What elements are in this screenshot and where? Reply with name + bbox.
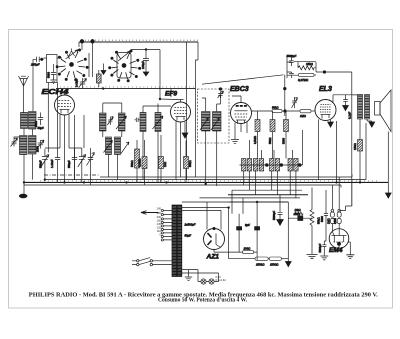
wire transformer top	[352, 94, 367, 96]
HT secondary wires	[182, 202, 288, 255]
svg-text:1500Ω: 1500Ω	[270, 262, 279, 266]
svg-text:8µF: 8µF	[245, 223, 250, 227]
svg-text:220: 220	[157, 211, 162, 215]
capacitor 5000pF to ground in box	[51, 64, 57, 84]
capacitor 10uF with ground	[143, 53, 149, 77]
cap 5000pF to ground arrow	[277, 195, 284, 226]
output transformer secondary	[365, 95, 370, 120]
trimmer cap right of L2a	[38, 113, 43, 126]
wire pin rails	[45, 115, 84, 180]
wire bus links right	[232, 123, 366, 214]
bus 4	[24, 184, 342, 186]
IF1 winding d	[155, 113, 161, 132]
wire tone to EL3	[287, 71, 352, 73]
wire gang drops	[45, 169, 91, 186]
IF2 shield dashed box	[198, 89, 230, 143]
mains arrow	[141, 211, 159, 215]
trimmer 2-18pF below sockets	[79, 78, 87, 89]
resistor 0,27M pill	[287, 73, 316, 76]
IF2 winding a	[202, 112, 211, 132]
antenna coil L1b	[20, 136, 28, 155]
wire tone tap down	[284, 75, 286, 89]
resistor zigzag 10k horizontal	[295, 208, 304, 215]
osc trimmers	[104, 141, 130, 154]
svg-text:2-18pF: 2-18pF	[75, 78, 79, 87]
svg-text:10kΩ: 10kΩ	[295, 208, 301, 212]
svg-text:1500Ω: 1500Ω	[256, 262, 265, 266]
tone loop wires	[287, 56, 316, 78]
svg-text:110: 110	[157, 229, 162, 233]
dial lamp 2	[209, 279, 214, 284]
tone cap 5000pF	[289, 58, 294, 67]
osc series cap	[72, 153, 77, 169]
ground arrow EF9	[182, 133, 188, 138]
wire cathode down	[228, 255, 230, 259]
oscillator socket S2	[109, 50, 141, 82]
tube ECH4	[55, 92, 75, 122]
resistor 0,3M	[142, 140, 147, 185]
ground arrow right	[385, 193, 391, 198]
coil former beside S2	[117, 53, 131, 79]
wires between sockets	[89, 53, 93, 77]
osc coil La	[106, 137, 112, 155]
junction dots chassis	[23, 48, 361, 209]
tube EL3	[315, 100, 336, 180]
antenna	[19, 76, 29, 113]
svg-text:50kΩ: 50kΩ	[268, 138, 272, 144]
EM4 resistor 2	[330, 185, 334, 229]
scan ticks top bus	[85, 39, 198, 41]
svg-text:2x500pF: 2x500pF	[184, 223, 196, 227]
wire EBC3 plate up	[232, 96, 241, 103]
svg-text:150Ω: 150Ω	[353, 143, 357, 150]
antenna coil L2b	[29, 136, 37, 155]
junction dot grid	[284, 110, 287, 113]
B+ rail vertical	[351, 72, 353, 206]
svg-text:500pF: 500pF	[39, 160, 43, 168]
wire box to socket	[44, 57, 63, 59]
wire transformer bottom	[360, 119, 372, 140]
bus 8	[229, 201, 289, 203]
tap labels	[157, 207, 162, 237]
junction dot d2	[280, 164, 283, 167]
wire anode taps	[182, 202, 221, 230]
heater wires bottom	[182, 270, 219, 282]
IF1 winding c	[140, 113, 146, 132]
svg-text:1MΩ: 1MΩ	[326, 218, 330, 224]
detector cluster 3	[288, 159, 298, 172]
svg-text:5000pF: 5000pF	[272, 211, 276, 220]
resistor 1k cathode	[159, 135, 164, 182]
scan ticks chassis	[40, 180, 380, 182]
svg-text:5000: 5000	[282, 138, 286, 144]
resistor zigzag 50k EM4	[310, 188, 314, 255]
wire volume tops	[258, 111, 287, 116]
pickup terminal box	[288, 212, 312, 221]
wire pill to EL3	[311, 110, 315, 112]
wire top bus drop left	[78, 42, 80, 47]
svg-text:50kΩ: 50kΩ	[188, 160, 192, 167]
bus y=88.6	[56, 88, 196, 90]
resistor 50k	[135, 140, 140, 182]
wire detector row	[240, 130, 303, 165]
trimmer arrow on S2	[118, 51, 131, 61]
mains switch	[132, 258, 172, 266]
svg-text:500pF: 500pF	[67, 160, 71, 168]
tube EF9	[171, 100, 191, 183]
wire coil links	[24, 129, 33, 183]
wire ECH4 pins down	[60, 122, 69, 182]
wire IF2 verticals	[202, 95, 221, 186]
svg-text:245: 245	[157, 207, 162, 211]
terminal dot A	[80, 40, 84, 51]
junction dot d1	[265, 164, 268, 167]
power transformer secondary	[177, 205, 182, 277]
choke resistor 100ohm	[214, 250, 257, 254]
antenna trimmer	[11, 137, 21, 147]
antenna coil L1a	[21, 113, 28, 129]
IF2 winding b	[213, 112, 222, 132]
ground bar EM4 left	[307, 255, 318, 259]
junction dot AF	[284, 87, 287, 90]
divider resistor 1500a	[229, 257, 269, 260]
junction dot d3	[298, 164, 301, 167]
dial lamp 1	[201, 279, 206, 284]
ground arrow mid	[101, 64, 106, 75]
resistor 150ohm cathode EL3	[358, 140, 363, 183]
svg-text:250pF: 250pF	[30, 63, 40, 67]
svg-text:0,5M: 0,5M	[333, 218, 337, 224]
svg-text:0,27MΩ: 0,27MΩ	[298, 78, 309, 82]
AF coupling line	[202, 75, 284, 84]
svg-text:50pF: 50pF	[38, 126, 44, 130]
svg-text:1kΩ: 1kΩ	[163, 162, 167, 167]
detector cluster 2	[270, 159, 280, 172]
svg-text:180Ω: 180Ω	[294, 212, 300, 216]
tube EBC3	[231, 103, 252, 140]
wire right verticals from top bus	[187, 42, 198, 180]
resistor 1kohm inter-socket	[97, 70, 102, 87]
svg-text:145: 145	[157, 222, 162, 226]
power transformer primary	[172, 205, 177, 277]
top bus	[79, 41, 198, 43]
svg-text:50kΩ: 50kΩ	[130, 160, 134, 167]
ground EBC3 cathode	[231, 140, 239, 144]
svg-text:5000: 5000	[47, 72, 51, 78]
wire AF dot down	[284, 89, 286, 116]
wire gang tops	[45, 148, 91, 154]
svg-text:5000: 5000	[320, 216, 324, 222]
svg-text:0,5MΩ: 0,5MΩ	[253, 136, 257, 144]
label lamps	[216, 275, 227, 282]
ground bar EM4 right	[346, 242, 354, 259]
ground arrow AZ1	[285, 202, 291, 267]
antenna coil L2a	[29, 112, 37, 130]
gang dash line	[44, 174, 100, 176]
wire IF1 tops	[103, 103, 171, 106]
wire EL3 plate top	[333, 95, 358, 183]
wire IF1/osc verticals	[103, 103, 158, 182]
bus 5	[232, 189, 302, 191]
wire top bus to socket2	[131, 50, 160, 53]
terminal dot B	[91, 40, 95, 54]
wire cluster drops	[244, 171, 296, 198]
EM4 resistor 3	[337, 177, 341, 229]
wire from cap down	[32, 59, 34, 112]
tube EM4	[329, 229, 349, 249]
EM4 coupling cap	[324, 190, 328, 241]
svg-text:200: 200	[157, 215, 162, 219]
tuning gang section 1	[41, 153, 49, 169]
svg-text:Consumo 50 W. Potenza d’uscita: Consumo 50 W. Potenza d’uscita 4 W.	[158, 298, 247, 304]
ground arrow EL3 cathode	[328, 122, 334, 127]
IF1 trimmer d	[153, 116, 164, 129]
IF1 trimmer b	[116, 116, 127, 129]
cap IF1 link	[135, 118, 141, 122]
scan ticks mid bus	[60, 86, 195, 88]
svg-text:EM4: EM4	[329, 247, 343, 254]
ground bar EM4 mid	[320, 256, 328, 260]
svg-text:1MΩ: 1MΩ	[300, 114, 306, 118]
wire EF9 top feeds	[160, 50, 178, 100]
shield box	[47, 55, 58, 83]
svg-text:0,3+0,3A: 0,3+0,3A	[216, 278, 227, 282]
tuning gang section 2	[78, 153, 86, 169]
svg-text:125: 125	[157, 226, 162, 230]
resistor AVC pill	[272, 109, 282, 112]
volume resistor 2	[270, 116, 275, 159]
IF2 trimmer cap top	[218, 91, 224, 98]
bus 3 chassis	[24, 181, 389, 183]
page frame	[9, 30, 393, 309]
filter cap 1	[237, 214, 242, 252]
svg-text:160: 160	[157, 219, 162, 223]
volume resistor 1	[255, 116, 260, 159]
osc coil Lb	[115, 137, 121, 155]
svg-text:50µF: 50µF	[185, 234, 192, 238]
svg-text:EL3: EL3	[319, 86, 332, 93]
detector cluster 1	[242, 159, 264, 172]
tube AZ1	[204, 227, 225, 249]
grid cap EM4	[322, 241, 326, 256]
svg-text:100Ω: 100Ω	[244, 247, 252, 251]
wire shield box drops	[48, 83, 57, 153]
resistor EF9 screen	[184, 157, 189, 169]
resistor zigzag 15k	[298, 66, 314, 70]
junction dot tone	[323, 71, 326, 74]
bus 7	[200, 197, 301, 199]
svg-text:0,3MΩ: 0,3MΩ	[138, 159, 142, 167]
bus 6 heavy	[228, 194, 308, 196]
wire AF grid line	[252, 110, 301, 112]
speaker	[375, 90, 392, 132]
bus 1	[100, 176, 352, 178]
svg-text:50kΩ: 50kΩ	[316, 217, 320, 224]
svg-text:50kΩ: 50kΩ	[272, 105, 278, 109]
wire cluster risers	[249, 140, 292, 159]
trimmer cap right of L2b	[37, 140, 44, 149]
svg-text:5000pF: 5000pF	[318, 243, 322, 252]
capacitor 250pF	[33, 57, 44, 62]
output transformer primary	[358, 95, 363, 120]
trimmer cap right of EBC3	[292, 97, 298, 108]
junction dot box top	[219, 88, 222, 91]
IF1 trimmer a	[107, 117, 113, 126]
osc trimmer arrow	[87, 153, 95, 169]
svg-text:EBC3: EBC3	[230, 86, 249, 93]
svg-text:100pF: 100pF	[141, 61, 145, 69]
wire speaker down	[387, 132, 389, 194]
svg-text:0,1µF: 0,1µF	[347, 112, 351, 119]
divider resistor 1500b	[268, 257, 288, 260]
IF1 winding a	[100, 113, 107, 131]
wire EM4 feeds	[339, 183, 352, 211]
IF2 trimmer arrows	[200, 118, 220, 130]
bus 2	[45, 179, 366, 181]
svg-text:15kΩ: 15kΩ	[306, 62, 314, 66]
padder cap	[55, 153, 60, 169]
svg-text:AZ1: AZ1	[206, 254, 220, 261]
volume resistor 3	[284, 116, 289, 159]
primary taps	[161, 209, 172, 241]
bypass cap B+	[343, 95, 349, 111]
ground transformer	[185, 270, 192, 281]
trimmer arrow on S1	[66, 50, 79, 59]
ground symbol bottom-left	[19, 182, 27, 198]
filter cap 2	[255, 202, 260, 260]
resistor grid pill EL3	[300, 109, 311, 112]
tone cap 2	[289, 72, 294, 78]
svg-text:1-10nF: 1-10nF	[50, 159, 54, 168]
ground arrow secondary	[369, 122, 375, 127]
oscillator socket S1	[56, 49, 88, 81]
IF1 winding b	[119, 113, 126, 131]
